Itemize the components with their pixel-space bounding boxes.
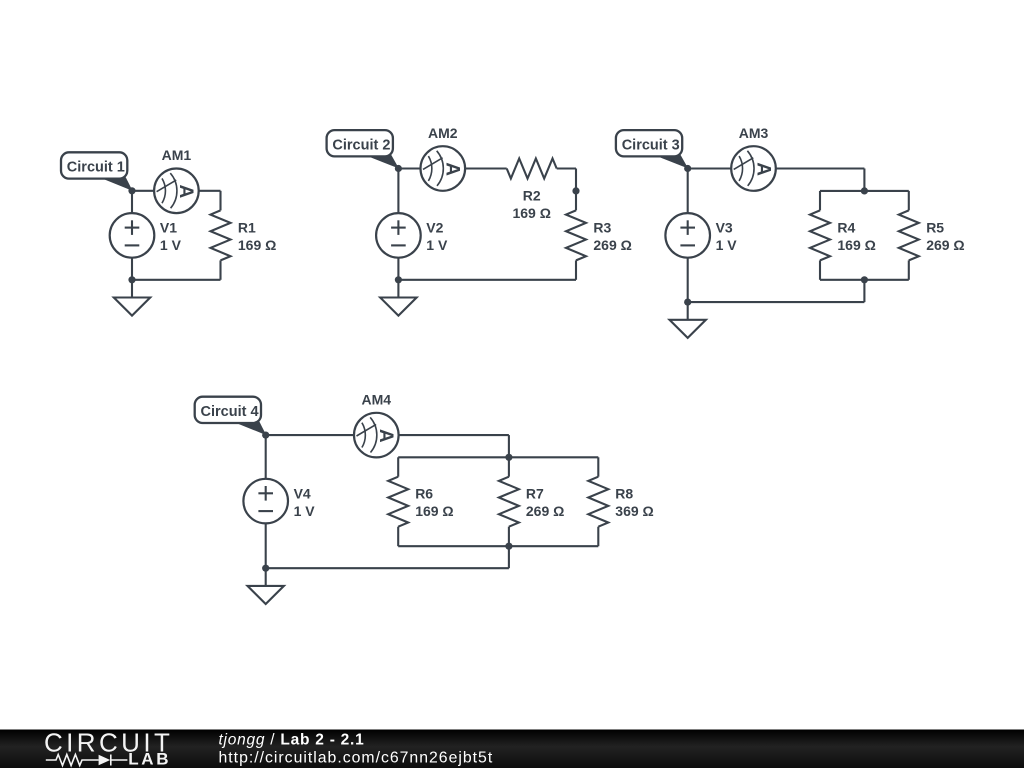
svg-text:A: A (375, 429, 396, 443)
svg-text:R1: R1 (238, 220, 256, 236)
svg-text:R7: R7 (526, 485, 544, 501)
svg-text:Circuit 3: Circuit 3 (622, 137, 680, 153)
svg-text:R5: R5 (926, 220, 944, 236)
svg-text:169 Ω: 169 Ω (837, 237, 875, 253)
svg-text:V4: V4 (294, 485, 311, 501)
svg-text:169 Ω: 169 Ω (238, 237, 276, 253)
svg-text:http://circuitlab.com/c67nn26e: http://circuitlab.com/c67nn26ejbt5t (219, 749, 494, 766)
svg-text:AM1: AM1 (162, 147, 192, 163)
svg-text:269 Ω: 269 Ω (926, 237, 964, 253)
svg-text:tjongg / Lab 2 - 2.1: tjongg / Lab 2 - 2.1 (219, 731, 365, 748)
svg-text:Circuit 2: Circuit 2 (332, 137, 390, 153)
svg-text:269 Ω: 269 Ω (593, 237, 631, 253)
svg-text:AM2: AM2 (428, 125, 458, 141)
svg-text:AM4: AM4 (362, 391, 392, 407)
svg-text:1 V: 1 V (716, 237, 738, 253)
svg-text:269 Ω: 269 Ω (526, 503, 564, 519)
svg-text:AM3: AM3 (739, 125, 769, 141)
svg-text:1 V: 1 V (160, 237, 182, 253)
svg-text:V2: V2 (426, 220, 443, 236)
svg-text:Circuit 4: Circuit 4 (201, 404, 259, 420)
svg-text:R3: R3 (593, 220, 611, 236)
svg-text:1 V: 1 V (426, 237, 448, 253)
svg-text:169 Ω: 169 Ω (415, 503, 453, 519)
svg-text:169 Ω: 169 Ω (512, 205, 550, 221)
svg-text:A: A (752, 162, 773, 176)
svg-text:LAB: LAB (128, 750, 171, 768)
svg-text:R4: R4 (837, 220, 855, 236)
svg-text:369 Ω: 369 Ω (615, 503, 653, 519)
svg-text:R2: R2 (523, 187, 541, 203)
svg-text:A: A (175, 185, 196, 199)
svg-text:V1: V1 (160, 220, 177, 236)
svg-text:1 V: 1 V (294, 503, 316, 519)
svg-text:R8: R8 (615, 485, 633, 501)
svg-text:Circuit 1: Circuit 1 (67, 160, 125, 176)
svg-text:R6: R6 (415, 485, 433, 501)
svg-text:V3: V3 (716, 220, 733, 236)
svg-text:A: A (442, 162, 463, 176)
